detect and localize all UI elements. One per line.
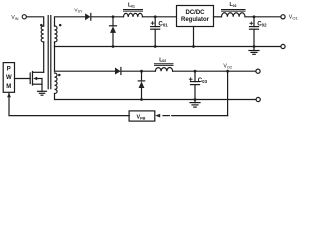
plus sign C02	[250, 22, 253, 25]
svg-text:W: W	[6, 75, 12, 81]
node junction rail A / D2	[112, 15, 115, 18]
svg-text:L01: L01	[128, 3, 135, 9]
ground under C03	[190, 100, 200, 108]
output terminal VO2	[256, 69, 260, 73]
node junction bottom rail / D4	[140, 98, 143, 101]
inductor L03 core bars	[222, 10, 246, 12]
transformer T1 core line 1	[47, 16, 49, 89]
wire primary bottom to MOSFET drain	[43, 42, 45, 72]
wire feedback tap vertical	[227, 71, 229, 115]
arrowhead into PWM bottom	[7, 93, 11, 98]
node junction rail B / regulator ground	[192, 45, 195, 48]
transistor Q1 MOSFET	[30, 72, 44, 92]
output return terminal O2	[256, 97, 260, 101]
wire center tap down to winding-2	[54, 47, 56, 72]
wire secondary winding-1 bottom to rail B	[54, 42, 56, 47]
svg-text:M: M	[6, 84, 11, 90]
wire L01 to regulator	[143, 16, 177, 18]
transformer T1 core line 2	[50, 16, 52, 89]
transformer T1 primary winding	[41, 26, 44, 42]
wire L02 to output terminal VO2	[173, 70, 256, 72]
node junction rail A / C02	[253, 15, 256, 18]
transformer T1 primary phasing dot	[40, 24, 43, 27]
wire L03 to output terminal VO1	[245, 16, 281, 18]
wire VFB to PWM	[9, 92, 129, 115]
label PWM	[6, 66, 12, 90]
node junction rail B / D2	[112, 45, 115, 48]
diode D1 series top rectifier	[85, 13, 91, 20]
node junction lower rail / D4	[140, 70, 143, 73]
transformer T1 secondary lower phasing dot	[58, 74, 61, 77]
node junction bottom rail / C03	[194, 98, 197, 101]
svg-text:L03: L03	[230, 2, 237, 8]
wire winding-2 bottom to bottom rail	[55, 94, 257, 100]
transformer T1 secondary winding lower	[55, 73, 58, 94]
label DC/DC Regulator	[181, 10, 210, 23]
svg-text:Regulator: Regulator	[181, 17, 210, 23]
wire regulator output to L03	[214, 16, 222, 18]
inductor L02 core bars	[155, 64, 174, 66]
node junction lower rail / C03	[194, 70, 197, 73]
transformer T1 secondary winding upper	[55, 26, 58, 42]
wire feedback dashed segment with arrow into VFB	[155, 114, 227, 118]
inductor L01 core bars	[124, 10, 143, 12]
wire VIN to transformer primary top	[26, 17, 43, 26]
diode D4 freewheeling lower	[138, 71, 144, 99]
output terminal VO1	[281, 15, 285, 19]
inductor L01	[124, 13, 143, 16]
output return terminal O1	[281, 44, 285, 48]
wire D3 cathode to L02	[121, 70, 155, 72]
diode D2 freewheeling top	[110, 17, 117, 47]
node junction rail B / C02 ground	[253, 45, 256, 48]
inductor L02	[155, 68, 172, 72]
capacitor C02	[250, 17, 259, 47]
wire lower rail from tap to D3	[55, 70, 116, 72]
capacitor C03	[191, 71, 200, 99]
transformer T1 secondary upper phasing dot	[59, 24, 62, 27]
svg-text:VSY: VSY	[74, 8, 83, 14]
plus sign C01	[151, 22, 154, 25]
svg-text:VO1: VO1	[289, 15, 299, 21]
svg-text:P: P	[7, 66, 11, 72]
wire regulator ground pin	[193, 27, 195, 47]
node junction VO2 feedback tap	[226, 70, 229, 73]
ground under C02	[249, 47, 259, 55]
input terminal VIN	[22, 15, 26, 19]
ground at MOSFET source	[38, 91, 47, 95]
capacitor C01	[151, 17, 160, 47]
svg-text:DC/DC: DC/DC	[186, 10, 206, 16]
PWM box U2	[3, 63, 14, 93]
svg-text:VFB: VFB	[137, 114, 146, 120]
plus sign C03	[189, 78, 192, 81]
svg-text:L02: L02	[159, 57, 166, 63]
wire secondary top to rail A	[55, 17, 87, 26]
regulator box U1	[177, 6, 214, 27]
wire D1 cathode to L01	[91, 16, 124, 18]
feedback box VFB	[129, 111, 155, 121]
inductor L03	[222, 13, 246, 17]
node junction rail B / C01	[154, 45, 157, 48]
wire PWM output to MOSFET gate	[15, 78, 31, 80]
wire rail B return	[55, 46, 281, 48]
diode D3 series lower rectifier	[115, 68, 121, 75]
node junction rail A / C01	[154, 15, 157, 18]
